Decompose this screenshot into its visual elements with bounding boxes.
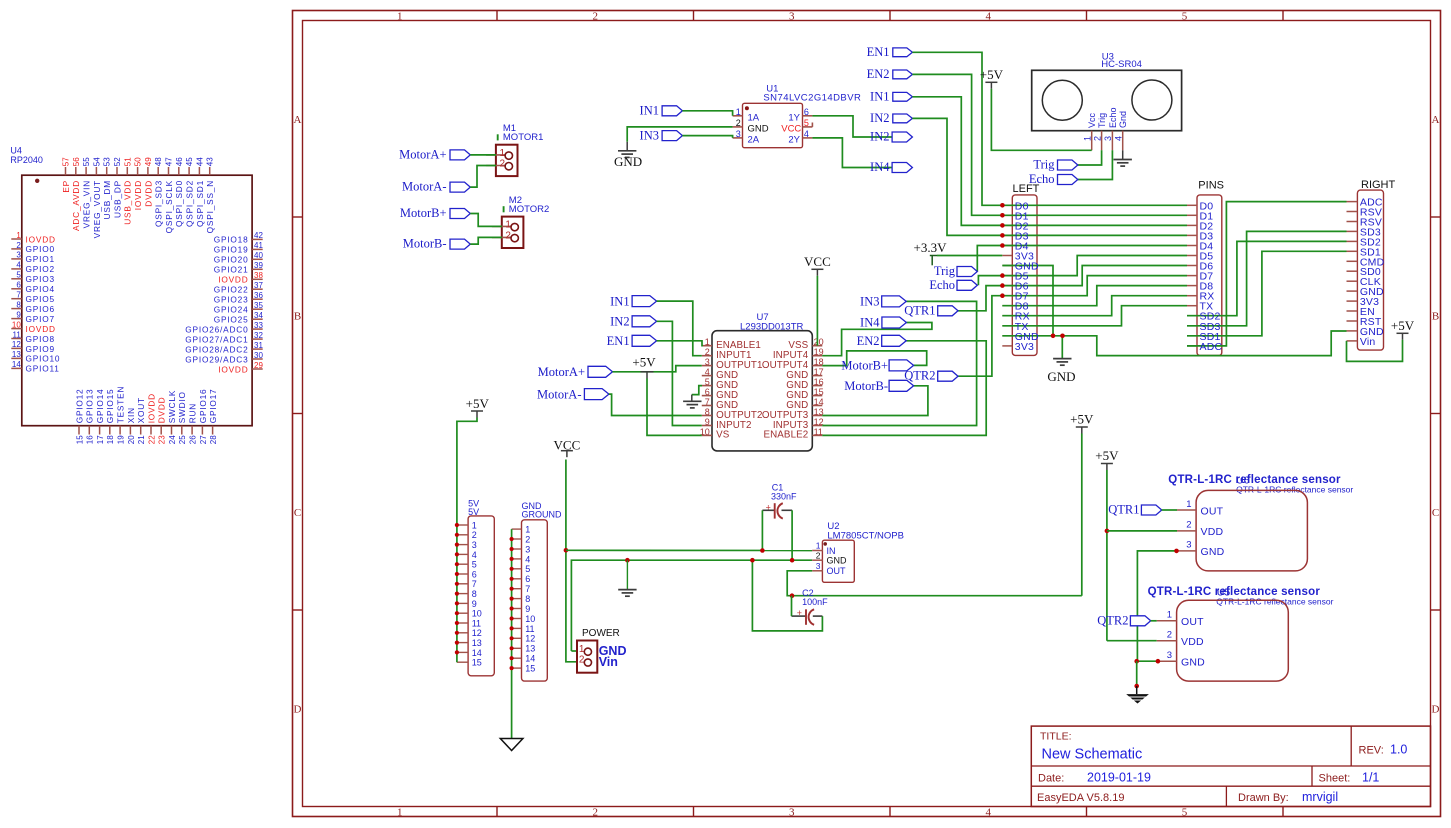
svg-text:5: 5	[525, 564, 530, 574]
svg-text:15: 15	[75, 435, 84, 444]
svg-text:3: 3	[472, 540, 477, 550]
svg-text:TESTEN: TESTEN	[116, 386, 126, 424]
svg-text:10: 10	[525, 614, 535, 624]
svg-text:GPIO2: GPIO2	[26, 264, 55, 274]
svg-text:6: 6	[705, 387, 710, 397]
svg-text:24: 24	[168, 435, 177, 444]
svg-text:GPIO8: GPIO8	[26, 334, 55, 344]
svg-text:LEFT: LEFT	[1013, 183, 1040, 195]
svg-text:ENABLE2: ENABLE2	[763, 430, 808, 441]
svg-text:GPIO19: GPIO19	[214, 245, 249, 255]
svg-text:GPIO22: GPIO22	[214, 285, 249, 295]
svg-text:8: 8	[16, 300, 21, 309]
svg-text:IOVDD: IOVDD	[218, 364, 248, 374]
svg-text:DVDD: DVDD	[143, 180, 153, 207]
svg-text:38: 38	[254, 271, 263, 280]
svg-text:1.0: 1.0	[1390, 743, 1407, 757]
svg-text:C: C	[294, 507, 301, 519]
svg-text:IOVDD: IOVDD	[26, 324, 56, 334]
svg-text:50: 50	[134, 157, 143, 166]
svg-text:8: 8	[472, 589, 477, 599]
svg-text:IN1: IN1	[870, 89, 889, 103]
svg-text:29: 29	[254, 361, 263, 370]
svg-text:QTR-L-1RC reflectance sensor: QTR-L-1RC reflectance sensor	[1236, 485, 1353, 495]
svg-text:1: 1	[16, 231, 21, 240]
svg-text:2Y: 2Y	[788, 134, 800, 145]
svg-text:MOTOR2: MOTOR2	[509, 204, 549, 215]
svg-text:QTR2: QTR2	[904, 369, 935, 383]
svg-text:41: 41	[254, 241, 263, 250]
svg-text:GND: GND	[1181, 657, 1205, 669]
svg-text:3: 3	[525, 544, 530, 554]
svg-text:IOVDD: IOVDD	[26, 234, 56, 244]
svg-text:2: 2	[592, 806, 598, 818]
svg-text:RIGHT: RIGHT	[1361, 179, 1396, 191]
svg-text:4: 4	[804, 129, 809, 139]
svg-text:4: 4	[1113, 136, 1123, 141]
svg-text:19: 19	[117, 435, 126, 444]
svg-text:1Y: 1Y	[788, 112, 800, 123]
svg-text:17: 17	[96, 435, 105, 444]
svg-text:GPIO4: GPIO4	[26, 284, 55, 294]
svg-text:IN4: IN4	[860, 316, 880, 330]
svg-text:+3.3V: +3.3V	[914, 240, 948, 255]
svg-text:6: 6	[16, 281, 21, 290]
svg-text:2: 2	[472, 530, 477, 540]
svg-text:GPIO3: GPIO3	[26, 274, 55, 284]
svg-text:VDD: VDD	[1201, 526, 1224, 538]
svg-text:4: 4	[16, 261, 21, 270]
svg-text:1: 1	[705, 337, 710, 347]
svg-text:1: 1	[397, 806, 403, 818]
svg-text:MotorB+: MotorB+	[841, 359, 888, 373]
svg-text:13: 13	[12, 350, 21, 359]
svg-text:21: 21	[137, 435, 146, 444]
svg-text:47: 47	[165, 157, 174, 166]
svg-text:MotorA+: MotorA+	[399, 147, 446, 161]
svg-text:VCC: VCC	[804, 254, 831, 269]
svg-text:40: 40	[254, 251, 263, 260]
svg-text:EN1: EN1	[867, 45, 890, 59]
svg-text:MotorA+: MotorA+	[538, 365, 585, 379]
svg-text:10: 10	[12, 320, 21, 329]
svg-text:5: 5	[1182, 10, 1188, 22]
svg-text:11: 11	[12, 330, 21, 339]
svg-text:GPIO20: GPIO20	[214, 255, 249, 265]
svg-text:7: 7	[472, 579, 477, 589]
svg-text:GND: GND	[827, 556, 848, 566]
svg-text:GPIO5: GPIO5	[26, 294, 55, 304]
svg-text:4: 4	[525, 554, 530, 564]
svg-text:GPIO11: GPIO11	[26, 364, 60, 374]
svg-text:VREG_VOUT: VREG_VOUT	[92, 180, 102, 238]
svg-text:20: 20	[127, 435, 136, 444]
svg-text:SWDIO: SWDIO	[177, 391, 187, 423]
svg-text:D: D	[294, 703, 302, 715]
svg-text:1: 1	[472, 520, 477, 530]
svg-text:13: 13	[472, 638, 482, 648]
svg-text:26: 26	[189, 435, 198, 444]
svg-text:53: 53	[103, 157, 112, 166]
svg-text:IOVDD: IOVDD	[146, 393, 156, 423]
svg-text:14: 14	[472, 648, 482, 658]
svg-text:GPIO25: GPIO25	[214, 315, 249, 325]
svg-text:GPIO26/ADC0: GPIO26/ADC0	[185, 324, 248, 334]
svg-text:1A: 1A	[748, 112, 760, 123]
svg-text:A: A	[294, 114, 302, 126]
svg-text:1: 1	[397, 10, 403, 22]
svg-text:GPIO15: GPIO15	[105, 389, 115, 424]
svg-text:2: 2	[1186, 520, 1191, 531]
svg-text:QSPI_SD0: QSPI_SD0	[174, 180, 184, 227]
svg-text:+: +	[766, 503, 771, 513]
svg-text:2: 2	[816, 550, 821, 560]
svg-text:MOTOR1: MOTOR1	[503, 132, 543, 143]
svg-text:IOVDD: IOVDD	[218, 275, 248, 285]
svg-text:4: 4	[985, 10, 991, 22]
svg-text:D: D	[1432, 703, 1440, 715]
svg-text:2: 2	[525, 534, 530, 544]
svg-text:QSPI_SD3: QSPI_SD3	[154, 180, 164, 227]
svg-text:15: 15	[525, 664, 535, 674]
svg-text:+5V: +5V	[980, 67, 1004, 82]
svg-text:3V3: 3V3	[1015, 341, 1034, 353]
svg-text:2: 2	[592, 10, 598, 22]
svg-text:2: 2	[1092, 136, 1102, 141]
svg-text:35: 35	[254, 301, 263, 310]
svg-text:GND: GND	[614, 154, 642, 169]
svg-text:IN2: IN2	[610, 315, 629, 329]
svg-text:30: 30	[254, 351, 263, 360]
svg-text:Drawn By:: Drawn By:	[1238, 792, 1289, 804]
svg-text:3: 3	[1103, 136, 1113, 141]
svg-text:ADC_AVDD: ADC_AVDD	[71, 180, 81, 231]
svg-text:3: 3	[1167, 650, 1172, 661]
svg-text:PINS: PINS	[1198, 180, 1224, 192]
svg-text:XOUT: XOUT	[136, 397, 146, 423]
svg-text:7: 7	[705, 397, 710, 407]
svg-text:1: 1	[525, 525, 530, 535]
svg-text:5: 5	[16, 271, 21, 280]
svg-text:GPIO16: GPIO16	[198, 389, 208, 424]
svg-text:XIN: XIN	[126, 407, 136, 423]
svg-text:57: 57	[62, 157, 71, 166]
svg-text:GPIO27/ADC1: GPIO27/ADC1	[185, 334, 248, 344]
svg-text:3: 3	[789, 806, 795, 818]
svg-text:B: B	[1432, 310, 1439, 322]
svg-text:DVDD: DVDD	[157, 397, 167, 424]
svg-text:B: B	[294, 310, 301, 322]
svg-text:+5V: +5V	[1095, 448, 1119, 463]
svg-text:34: 34	[254, 311, 263, 320]
svg-text:GPIO0: GPIO0	[26, 244, 55, 254]
svg-text:330nF: 330nF	[771, 492, 797, 502]
svg-text:MotorB-: MotorB-	[844, 379, 888, 393]
svg-text:42: 42	[254, 231, 263, 240]
svg-text:EN2: EN2	[867, 67, 890, 81]
svg-text:10: 10	[472, 609, 482, 619]
svg-text:Sheet:: Sheet:	[1319, 773, 1351, 785]
svg-text:EN2: EN2	[857, 334, 880, 348]
svg-text:RUN: RUN	[188, 403, 198, 423]
svg-text:mrvigil: mrvigil	[1302, 790, 1338, 804]
svg-text:17: 17	[814, 367, 824, 377]
svg-text:9: 9	[472, 599, 477, 609]
svg-text:18: 18	[106, 435, 115, 444]
svg-text:VDD: VDD	[1181, 636, 1204, 648]
svg-text:Date:: Date:	[1038, 773, 1064, 785]
svg-text:56: 56	[72, 157, 81, 166]
svg-text:QTR1: QTR1	[904, 303, 935, 317]
svg-text:USB_VDD: USB_VDD	[123, 180, 133, 225]
svg-text:EasyEDA V5.8.19: EasyEDA V5.8.19	[1037, 792, 1124, 804]
svg-text:QTR-L-1RC reflectance sensor: QTR-L-1RC reflectance sensor	[1216, 597, 1333, 607]
svg-text:11: 11	[525, 624, 534, 634]
svg-text:8: 8	[705, 407, 710, 417]
svg-text:IN3: IN3	[860, 295, 879, 309]
svg-text:SN74LVC2G14DBVR: SN74LVC2G14DBVR	[763, 92, 861, 103]
svg-text:IN3: IN3	[640, 128, 659, 142]
svg-text:7: 7	[525, 584, 530, 594]
svg-text:VS: VS	[716, 430, 730, 441]
svg-text:+5V: +5V	[632, 355, 656, 370]
svg-text:5: 5	[1182, 806, 1188, 818]
svg-text:55: 55	[82, 157, 91, 166]
svg-text:Gnd: Gnd	[1118, 111, 1128, 128]
svg-text:GPIO29/ADC3: GPIO29/ADC3	[185, 354, 248, 364]
svg-text:7: 7	[16, 291, 21, 300]
svg-text:12: 12	[525, 634, 535, 644]
svg-text:GPIO28/ADC2: GPIO28/ADC2	[185, 344, 248, 354]
svg-text:EN1: EN1	[607, 334, 630, 348]
svg-text:9: 9	[705, 417, 710, 427]
svg-text:5: 5	[804, 118, 809, 128]
svg-text:EP: EP	[61, 180, 71, 193]
svg-text:15: 15	[814, 387, 824, 397]
svg-text:U4: U4	[10, 146, 22, 156]
svg-text:6: 6	[525, 574, 530, 584]
svg-text:IN2: IN2	[870, 130, 889, 144]
svg-text:IN1: IN1	[640, 104, 659, 118]
svg-text:4: 4	[472, 550, 477, 560]
svg-text:37: 37	[254, 281, 263, 290]
svg-text:33: 33	[254, 321, 263, 330]
svg-text:3: 3	[789, 10, 795, 22]
svg-text:22: 22	[147, 435, 156, 444]
svg-text:3: 3	[1186, 540, 1191, 551]
svg-text:IN4: IN4	[870, 160, 890, 174]
svg-text:IOVDD: IOVDD	[133, 180, 143, 210]
svg-text:1/1: 1/1	[1362, 771, 1379, 785]
svg-text:2: 2	[736, 118, 741, 128]
svg-text:15: 15	[472, 658, 482, 668]
svg-text:28: 28	[209, 435, 218, 444]
svg-text:VREG_VIN: VREG_VIN	[82, 180, 92, 228]
svg-text:3: 3	[16, 251, 21, 260]
svg-text:20: 20	[814, 337, 824, 347]
svg-text:GPIO13: GPIO13	[85, 389, 95, 424]
svg-text:IN: IN	[827, 546, 836, 556]
svg-text:9: 9	[525, 604, 530, 614]
svg-text:GPIO17: GPIO17	[208, 389, 218, 424]
svg-text:13: 13	[814, 407, 824, 417]
svg-text:1: 1	[1167, 610, 1172, 621]
svg-text:2: 2	[1167, 630, 1172, 641]
svg-text:+: +	[797, 608, 802, 618]
svg-text:14: 14	[525, 654, 535, 664]
svg-text:TITLE:: TITLE:	[1040, 731, 1072, 743]
svg-text:USB_DM: USB_DM	[102, 180, 112, 219]
svg-text:SWCLK: SWCLK	[167, 390, 177, 424]
svg-text:1: 1	[1186, 499, 1191, 510]
svg-text:23: 23	[158, 435, 167, 444]
svg-text:MotorA-: MotorA-	[537, 387, 581, 401]
svg-text:MotorB+: MotorB+	[400, 206, 447, 220]
svg-text:48: 48	[154, 157, 163, 166]
svg-text:14: 14	[814, 397, 824, 407]
svg-text:2019-01-19: 2019-01-19	[1087, 771, 1151, 785]
svg-text:GPIO10: GPIO10	[26, 354, 61, 364]
svg-text:OUT: OUT	[1181, 616, 1204, 628]
svg-text:31: 31	[254, 341, 263, 350]
svg-text:+5V: +5V	[1391, 318, 1415, 333]
svg-text:Echo: Echo	[1108, 107, 1118, 128]
svg-text:44: 44	[195, 157, 204, 166]
svg-text:GND: GND	[1047, 369, 1075, 384]
svg-text:6: 6	[804, 107, 809, 117]
svg-text:QTR2: QTR2	[1097, 613, 1128, 627]
svg-text:2A: 2A	[748, 134, 760, 145]
svg-text:IN1: IN1	[610, 294, 629, 308]
svg-text:Trig: Trig	[934, 264, 956, 278]
svg-text:49: 49	[144, 157, 153, 166]
svg-text:GPIO7: GPIO7	[26, 314, 55, 324]
svg-text:1: 1	[816, 541, 821, 551]
svg-text:MotorA-: MotorA-	[402, 180, 446, 194]
svg-text:12: 12	[472, 628, 482, 638]
svg-text:POWER: POWER	[582, 628, 620, 639]
svg-text:OUT: OUT	[827, 566, 847, 576]
svg-text:REV:: REV:	[1359, 745, 1384, 757]
svg-text:5: 5	[472, 560, 477, 570]
svg-text:2: 2	[16, 241, 21, 250]
svg-text:QSPI_SD2: QSPI_SD2	[185, 180, 195, 227]
svg-text:46: 46	[175, 157, 184, 166]
svg-text:16: 16	[86, 435, 95, 444]
svg-text:QSPI_SCLK: QSPI_SCLK	[164, 180, 174, 233]
svg-text:1: 1	[1082, 136, 1092, 141]
svg-text:QTR1: QTR1	[1108, 503, 1139, 517]
svg-text:GPIO12: GPIO12	[74, 389, 84, 424]
svg-text:12: 12	[12, 340, 21, 349]
svg-text:3: 3	[736, 129, 741, 139]
svg-text:GND: GND	[748, 123, 769, 134]
svg-text:GPIO1: GPIO1	[26, 254, 55, 264]
svg-text:QSPI_SD1: QSPI_SD1	[195, 180, 205, 227]
svg-text:VCC: VCC	[781, 123, 801, 134]
svg-text:3: 3	[705, 357, 710, 367]
svg-text:GPIO14: GPIO14	[95, 389, 105, 424]
svg-text:16: 16	[814, 377, 824, 387]
svg-text:Trig: Trig	[1033, 158, 1055, 172]
svg-text:25: 25	[178, 435, 187, 444]
svg-text:New Schematic: New Schematic	[1042, 747, 1143, 763]
svg-text:GPIO9: GPIO9	[26, 344, 55, 354]
svg-text:12: 12	[814, 417, 824, 427]
svg-text:OUT: OUT	[1201, 505, 1224, 517]
svg-text:MotorB-: MotorB-	[403, 237, 447, 251]
svg-text:Echo: Echo	[929, 278, 955, 292]
svg-text:43: 43	[206, 157, 215, 166]
svg-text:HC-SR04: HC-SR04	[1101, 59, 1142, 70]
svg-text:54: 54	[92, 157, 101, 166]
svg-text:4: 4	[705, 367, 710, 377]
svg-text:39: 39	[254, 261, 263, 270]
svg-text:RP2040: RP2040	[10, 155, 43, 165]
svg-text:USB_DP: USB_DP	[112, 180, 122, 218]
svg-text:51: 51	[123, 157, 132, 166]
svg-text:C: C	[1432, 507, 1439, 519]
svg-text:+5V: +5V	[1070, 412, 1094, 427]
svg-text:Vin: Vin	[599, 655, 618, 669]
svg-text:Vin: Vin	[1360, 336, 1376, 348]
svg-text:Vcc: Vcc	[1087, 112, 1097, 128]
svg-text:5: 5	[705, 377, 710, 387]
svg-text:A: A	[1432, 114, 1440, 126]
svg-text:6: 6	[472, 569, 477, 579]
svg-text:9: 9	[16, 310, 21, 319]
svg-text:GROUND: GROUND	[522, 509, 562, 519]
svg-text:3: 3	[816, 561, 821, 571]
svg-text:GPIO21: GPIO21	[214, 265, 249, 275]
svg-text:27: 27	[199, 435, 208, 444]
svg-text:1: 1	[736, 107, 741, 117]
svg-text:13: 13	[525, 644, 535, 654]
svg-text:36: 36	[254, 291, 263, 300]
svg-text:8: 8	[525, 594, 530, 604]
svg-text:QSPI_SS_N: QSPI_SS_N	[205, 180, 215, 233]
svg-text:11: 11	[472, 618, 481, 628]
svg-text:GPIO18: GPIO18	[214, 235, 249, 245]
svg-text:ADC: ADC	[1200, 341, 1223, 353]
svg-text:4: 4	[985, 806, 991, 818]
svg-text:GPIO23: GPIO23	[214, 295, 249, 305]
svg-text:14: 14	[12, 360, 21, 369]
svg-text:IN2: IN2	[870, 111, 889, 125]
svg-text:52: 52	[113, 157, 122, 166]
svg-text:100nF: 100nF	[802, 597, 828, 607]
svg-text:GPIO24: GPIO24	[214, 305, 249, 315]
svg-text:GND: GND	[1201, 546, 1225, 558]
svg-text:2: 2	[705, 347, 710, 357]
svg-text:18: 18	[814, 357, 824, 367]
svg-text:Trig: Trig	[1097, 113, 1107, 128]
svg-text:GPIO6: GPIO6	[26, 304, 55, 314]
svg-text:11: 11	[814, 427, 823, 437]
svg-text:32: 32	[254, 331, 263, 340]
svg-text:+5V: +5V	[466, 396, 490, 411]
svg-text:45: 45	[185, 157, 194, 166]
svg-text:19: 19	[814, 347, 824, 357]
